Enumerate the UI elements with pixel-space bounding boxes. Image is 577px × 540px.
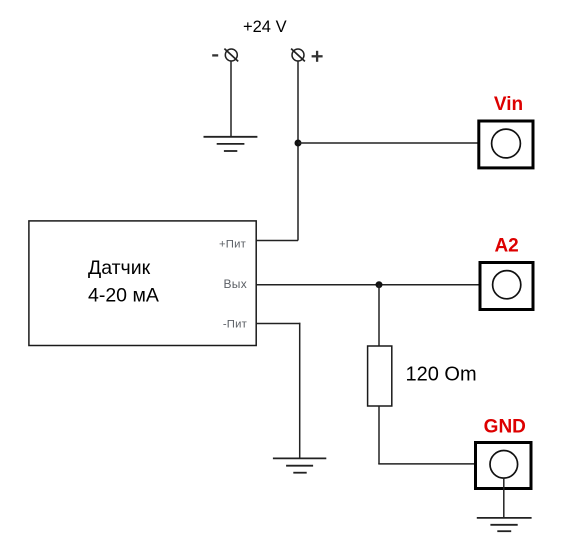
ground G2 [273, 458, 326, 472]
svg-text:+24 V: +24 V [243, 18, 287, 36]
node junction on +24V line [295, 140, 302, 147]
label + [312, 51, 323, 62]
terminal T2 (+) [291, 49, 305, 62]
wire from T1 to ground [230, 61, 232, 137]
node junction on Вых line [376, 281, 383, 288]
svg-text:A2: A2 [494, 235, 518, 256]
svg-text:Vin: Vin [494, 94, 523, 115]
resistor R1 [368, 346, 392, 406]
wire pin Вых to A2 [257, 284, 481, 286]
svg-text:4-20 мА: 4-20 мА [88, 284, 159, 306]
sensor box [29, 221, 256, 346]
wire pin -Пит [257, 323, 301, 325]
terminal Vin box [479, 121, 533, 168]
svg-text:Датчик: Датчик [88, 257, 151, 279]
svg-text:+Пит: +Пит [219, 239, 246, 251]
terminal GND box [476, 443, 532, 489]
terminal T1 (-) [224, 49, 238, 62]
svg-text:Вых: Вых [223, 277, 247, 291]
wire junction to Vin [298, 142, 478, 144]
label - [212, 54, 218, 56]
wire from T2 down to +Pit junction [297, 61, 299, 241]
wire down to ground G2 [299, 323, 301, 458]
svg-text:-Пит: -Пит [223, 318, 247, 330]
wire pin +Пит [257, 240, 299, 242]
wire resistor to corner [378, 406, 380, 464]
terminal A2 box [480, 263, 533, 310]
wire junction to resistor [378, 285, 380, 346]
ground G1 [204, 137, 258, 151]
wire GND circle to ground [503, 478, 505, 517]
ground G3 [477, 518, 532, 531]
svg-text:GND: GND [484, 416, 526, 437]
wire corner to GND box [378, 463, 476, 465]
svg-text:120 Om: 120 Om [406, 364, 477, 386]
